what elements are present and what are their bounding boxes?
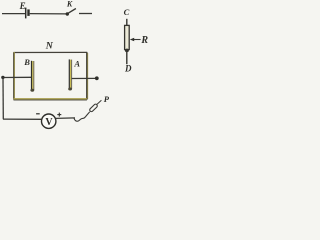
svg-text:D: D: [124, 64, 132, 74]
svg-text:V: V: [45, 117, 53, 128]
svg-text:A: A: [73, 59, 80, 69]
svg-text:B: B: [23, 57, 30, 67]
svg-text:E: E: [19, 1, 26, 11]
svg-text:C: C: [124, 7, 130, 17]
svg-text:N: N: [45, 40, 54, 51]
svg-text:R: R: [140, 35, 148, 46]
svg-text:P: P: [104, 94, 110, 104]
svg-text:K: K: [66, 0, 73, 9]
